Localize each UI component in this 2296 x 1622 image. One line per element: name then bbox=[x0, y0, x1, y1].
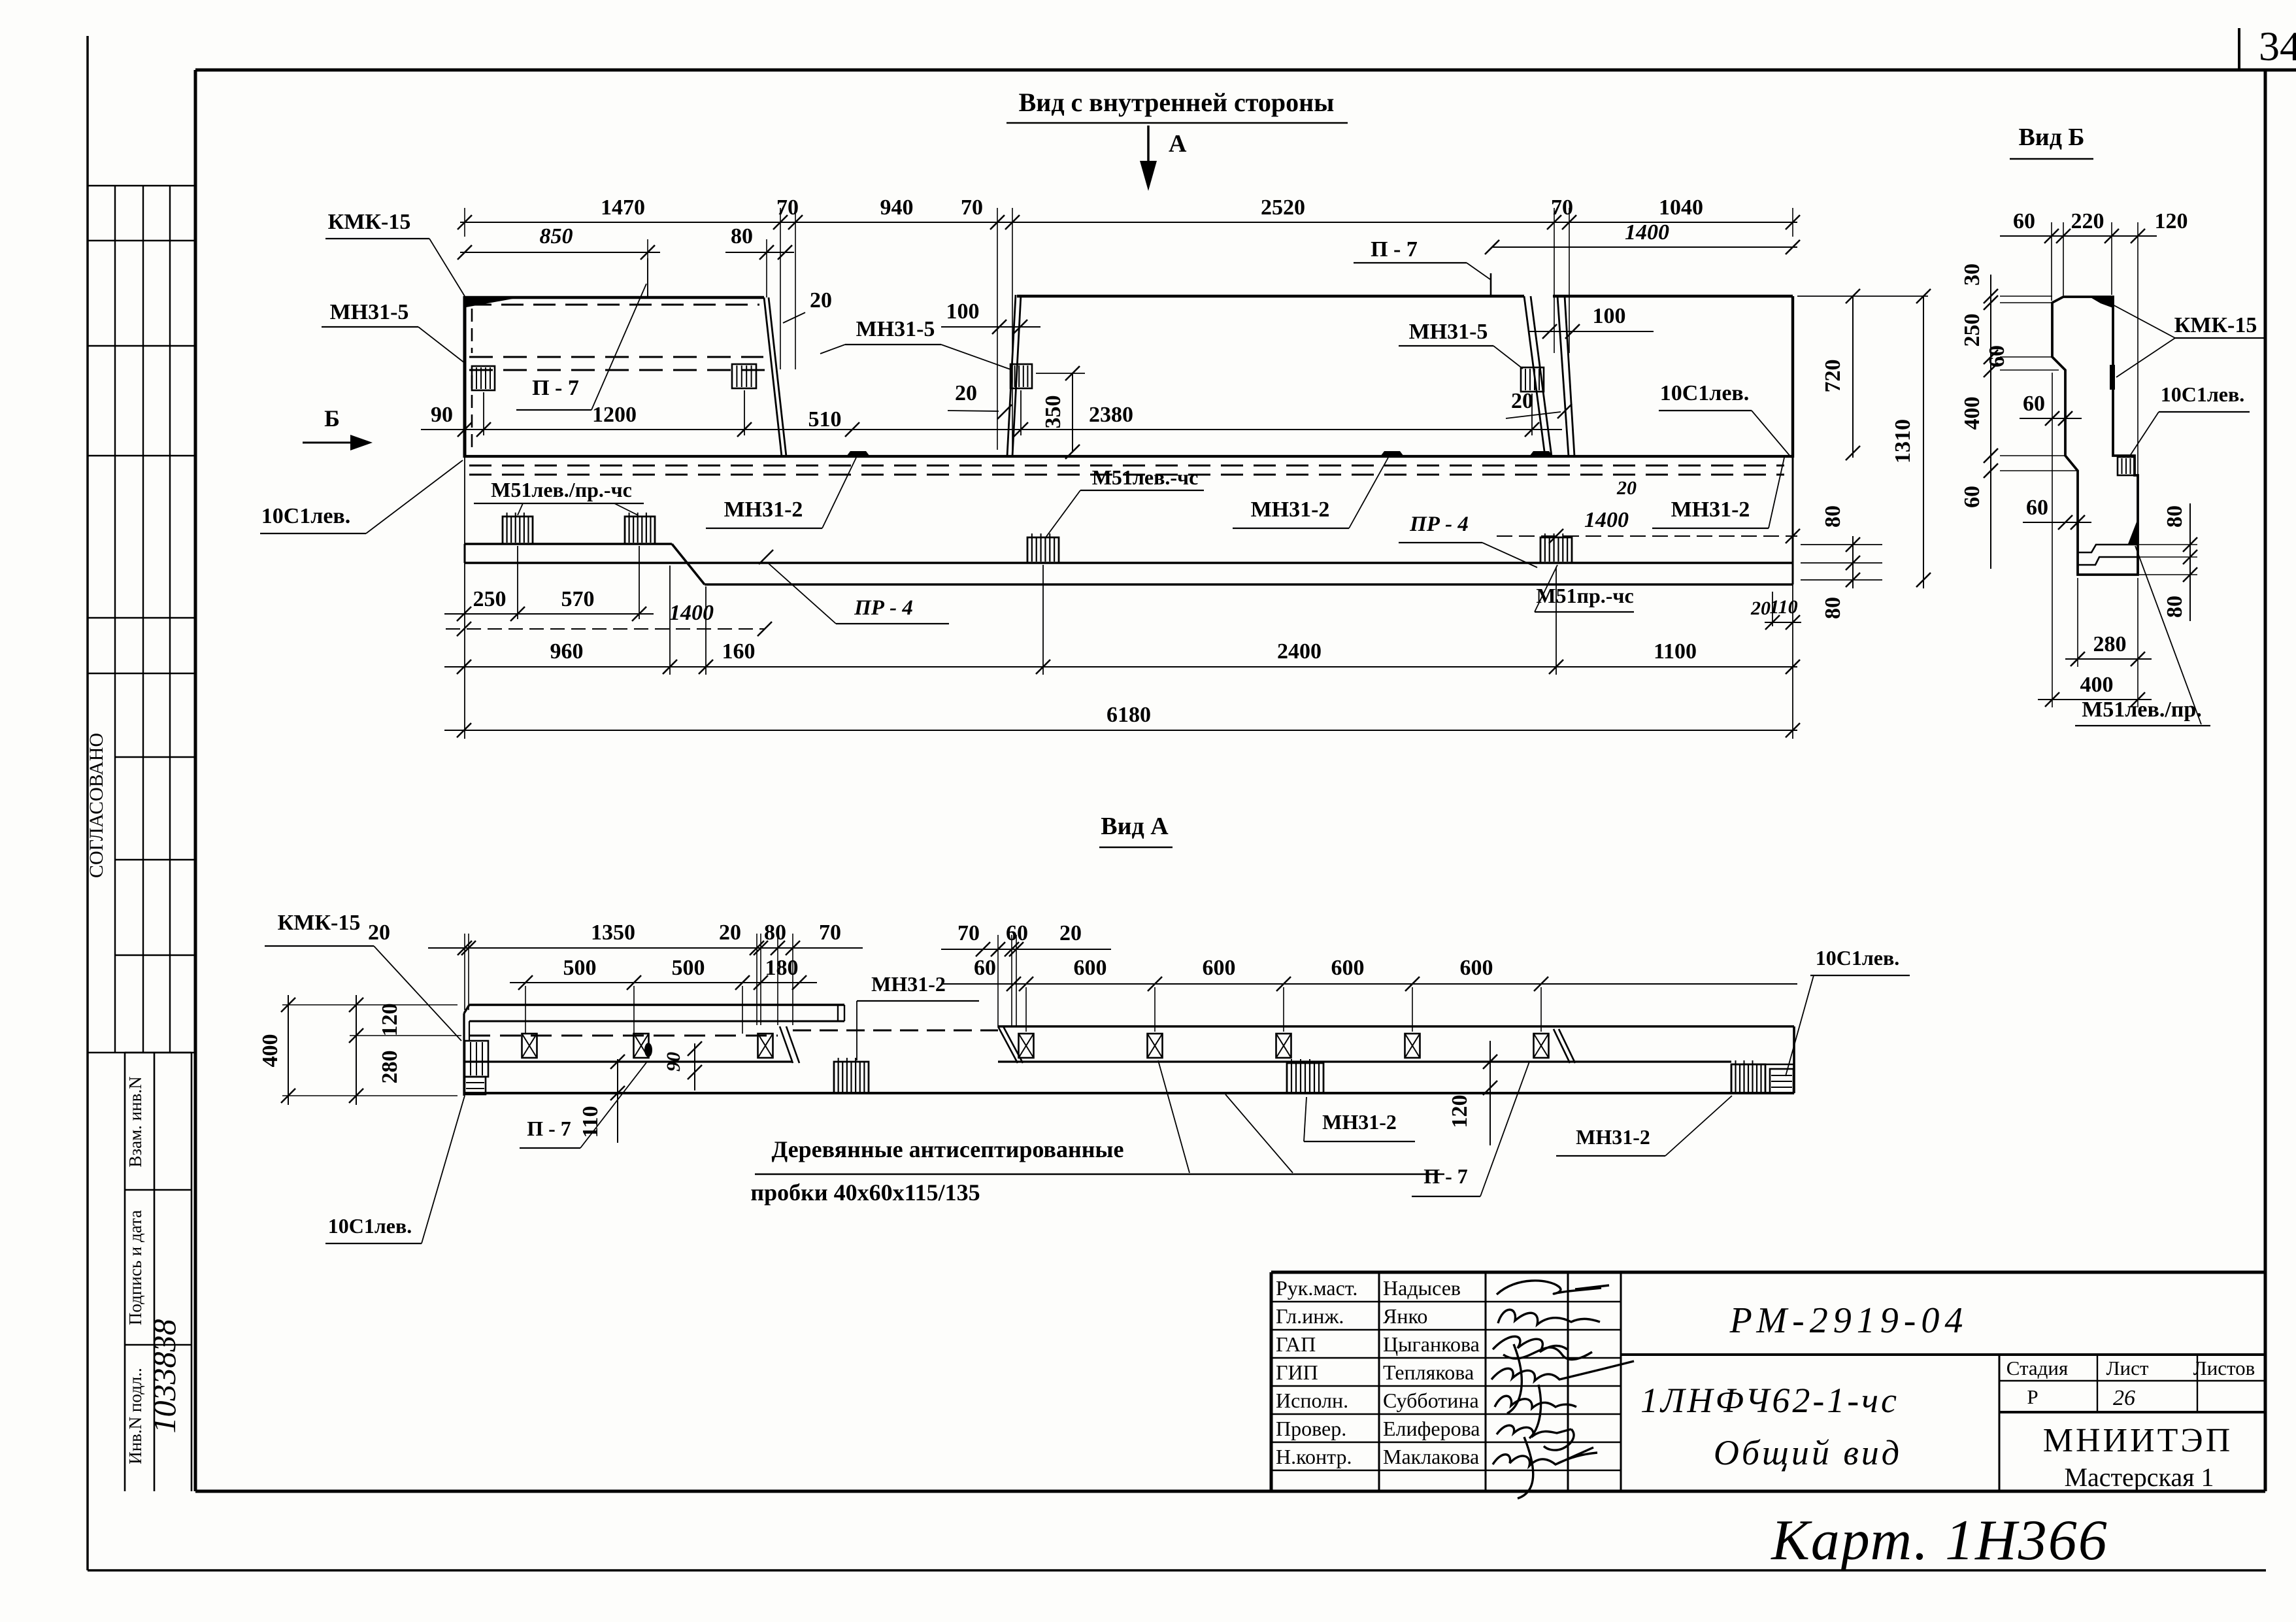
svg-text:пробки 40х60х115/135: пробки 40х60х115/135 bbox=[750, 1179, 980, 1206]
dim text 70 b bbox=[961, 195, 983, 220]
svg-text:350: 350 bbox=[1041, 396, 1065, 429]
dim text 1200 bbox=[592, 403, 637, 427]
label Подпись и дата bbox=[125, 1210, 145, 1325]
label КМК-15 top bbox=[325, 210, 465, 296]
svg-text:М51лев.-чс: М51лев.-чс bbox=[1092, 465, 1199, 489]
svg-text:10С1лев.: 10С1лев. bbox=[1660, 381, 1750, 405]
Вид Б dim 80/80 bbox=[2139, 503, 2197, 621]
svg-text:20: 20 bbox=[955, 381, 977, 405]
header Листов bbox=[2193, 1357, 2255, 1379]
dim 20 at middle block left slant bbox=[948, 381, 1012, 419]
label КМК-15 Вид Б bbox=[2108, 302, 2265, 377]
sheet bottom edge line bbox=[88, 1569, 2266, 1572]
svg-text:20: 20 bbox=[1750, 598, 1771, 619]
svg-text:1040: 1040 bbox=[1659, 195, 1703, 220]
label МН31-2 left bbox=[706, 458, 856, 528]
plug extension lines left block bbox=[484, 390, 744, 435]
svg-text:МН31-5: МН31-5 bbox=[330, 300, 409, 324]
svg-text:70: 70 bbox=[1551, 195, 1573, 220]
hidden dashed line under bottom edge 2 bbox=[469, 474, 1784, 476]
dimension 80 bbox=[725, 224, 794, 297]
svg-text:Вид А: Вид А bbox=[1101, 813, 1169, 840]
svg-text:34: 34 bbox=[2259, 23, 2296, 69]
svg-text:80: 80 bbox=[764, 921, 786, 945]
hidden dashed line under bottom edge 1 bbox=[469, 465, 1784, 467]
Вид Б dim 400 bottom bbox=[2038, 673, 2152, 707]
dim text 510 bbox=[808, 407, 842, 431]
svg-text:КМК-15: КМК-15 bbox=[278, 911, 361, 935]
svg-text:100: 100 bbox=[946, 299, 980, 324]
svg-text:850: 850 bbox=[540, 224, 573, 248]
svg-text:Провер.: Провер. bbox=[1276, 1417, 1346, 1440]
svg-text:400: 400 bbox=[2080, 673, 2114, 697]
Вид А М51 plug 1 bbox=[834, 1058, 869, 1093]
svg-text:90: 90 bbox=[431, 403, 453, 427]
svg-text:1ЛНФЧ62-1-чс: 1ЛНФЧ62-1-чс bbox=[1640, 1381, 1899, 1420]
svg-text:Р: Р bbox=[2027, 1385, 2038, 1408]
title block grid bbox=[1271, 1272, 2265, 1491]
dim text 1470 bbox=[601, 195, 645, 220]
svg-text:Рук.маст.: Рук.маст. bbox=[1276, 1276, 1357, 1300]
svg-text:10С1лев.: 10С1лев. bbox=[2161, 382, 2245, 406]
label 10С1лев Вид А right bbox=[1786, 946, 1910, 1076]
Вид Б dim 60 stem top bbox=[2020, 392, 2082, 426]
handwritten inventory number 1033838 bbox=[146, 1319, 182, 1434]
svg-text:Янко: Янко bbox=[1383, 1304, 1427, 1328]
svg-text:МН31-2: МН31-2 bbox=[1671, 498, 1750, 522]
dimension 100 right bbox=[1529, 304, 1654, 339]
page number tick bbox=[2238, 28, 2240, 70]
sheet left edge line bbox=[86, 36, 89, 1570]
Вид А dim row 20/1350/20/80/70 bbox=[368, 921, 863, 1025]
svg-text:280: 280 bbox=[378, 1051, 402, 1084]
Вид А right end corrugated plug bbox=[1731, 1060, 1765, 1093]
label МН31-5 mid bbox=[820, 317, 1010, 369]
dimension row 90/1200/510/2380 bbox=[421, 422, 1562, 437]
label ПР-4 right bbox=[1399, 513, 1537, 567]
svg-text:1033838: 1033838 bbox=[146, 1319, 182, 1434]
Вид А dim row 60/600x4 bbox=[941, 935, 1797, 1032]
Вид А X-box left piece 1 bbox=[522, 1034, 537, 1058]
svg-text:Стадия: Стадия bbox=[2006, 1357, 2069, 1379]
step extension lines bbox=[670, 566, 706, 675]
label МН31-2 Вид А plug2 bbox=[1304, 1097, 1415, 1141]
Вид Б dim 280 bbox=[2065, 632, 2152, 666]
svg-text:80: 80 bbox=[2163, 596, 2187, 618]
М51 plug band 3 bbox=[1027, 533, 1059, 563]
svg-text:Инв.N подл..: Инв.N подл.. bbox=[125, 1368, 145, 1464]
svg-text:90: 90 bbox=[663, 1052, 684, 1072]
svg-text:Теплякова: Теплякова bbox=[1383, 1360, 1474, 1384]
label МН31-2 Вид А plug1 bbox=[857, 972, 979, 1060]
section arrow А bbox=[1140, 126, 1187, 191]
svg-text:КМК-15: КМК-15 bbox=[328, 210, 411, 234]
text СОГЛАСОВАНО bbox=[86, 733, 107, 878]
header Лист bbox=[2106, 1357, 2149, 1379]
dimension 20/110 bbox=[1750, 592, 1801, 630]
svg-text:Б: Б bbox=[324, 405, 340, 431]
svg-text:110: 110 bbox=[1769, 596, 1797, 618]
svg-text:60: 60 bbox=[1960, 486, 1984, 508]
label П-7 Вид А bbox=[520, 1062, 647, 1148]
plug extension lines middle block bbox=[1021, 390, 1532, 435]
label МН31-2 right bbox=[1652, 458, 1784, 528]
svg-text:Карт. 1Н366: Карт. 1Н366 bbox=[1770, 1509, 2108, 1572]
right edge extension vertical bbox=[1792, 584, 1793, 739]
svg-text:МН31-5: МН31-5 bbox=[1409, 320, 1488, 344]
svg-text:2520: 2520 bbox=[1261, 195, 1305, 220]
svg-text:Взам. инв.N: Взам. инв.N bbox=[125, 1076, 145, 1167]
left block outline bbox=[463, 296, 786, 458]
МН31-2 anchor notch 3 bbox=[1529, 451, 1553, 456]
svg-text:Вид с внутренней стороны: Вид с внутренней стороны bbox=[1019, 88, 1335, 117]
svg-text:Цыганкова: Цыганкова bbox=[1383, 1332, 1480, 1356]
svg-text:1350: 1350 bbox=[591, 921, 635, 945]
svg-text:Общий вид: Общий вид bbox=[1714, 1433, 1902, 1472]
Вид А X-box right piece 2 bbox=[1148, 1034, 1163, 1058]
Вид А X-box right piece 5 bbox=[1534, 1034, 1549, 1058]
svg-text:280: 280 bbox=[2093, 632, 2127, 656]
ext lines plugs band bbox=[518, 546, 639, 619]
Вид Б dim row 60/220/120 bbox=[2000, 209, 2188, 521]
svg-text:120: 120 bbox=[2155, 209, 2188, 233]
handwritten Карт. 1Н366 bbox=[1770, 1509, 2108, 1572]
svg-text:1200: 1200 bbox=[592, 403, 637, 427]
svg-text:20: 20 bbox=[1616, 477, 1637, 499]
Вид А X-box right piece 3 bbox=[1276, 1034, 1291, 1058]
svg-text:110: 110 bbox=[578, 1106, 603, 1138]
dim 20 at left block slant bbox=[783, 288, 832, 323]
svg-text:10С1лев.: 10С1лев. bbox=[328, 1214, 412, 1238]
svg-text:ПР - 4: ПР - 4 bbox=[1409, 513, 1469, 536]
middle block outline bbox=[1007, 295, 1552, 456]
label 10С1лев Вид Б bbox=[2129, 382, 2250, 458]
dimension 1400/20 band right bbox=[1497, 477, 1800, 543]
view title Вид А bbox=[1099, 813, 1173, 847]
svg-text:26: 26 bbox=[2113, 1386, 2135, 1410]
stage Р bbox=[2027, 1385, 2038, 1408]
dim text 90 bbox=[431, 403, 453, 427]
label КМК-15 Вид А bbox=[265, 911, 461, 1041]
svg-text:1400: 1400 bbox=[1625, 220, 1669, 245]
label ПР-4 mid bbox=[759, 550, 949, 624]
dimension 720 bbox=[1797, 289, 1928, 460]
svg-text:20: 20 bbox=[719, 921, 741, 945]
dimension 6180 bbox=[444, 703, 1800, 737]
svg-text:Деревянные антисептированные: Деревянные антисептированные bbox=[771, 1136, 1123, 1162]
label 10С1лев Вид А left bbox=[325, 1096, 465, 1243]
svg-text:Н.контр.: Н.контр. bbox=[1276, 1445, 1352, 1468]
dim 20 at right block slant bbox=[1506, 389, 1572, 418]
svg-text:500: 500 bbox=[672, 956, 705, 980]
Вид Б left dim stack bbox=[1960, 263, 2078, 569]
svg-text:МН31-2: МН31-2 bbox=[1251, 498, 1330, 522]
svg-text:70: 70 bbox=[819, 921, 841, 945]
svg-text:МН31-2: МН31-2 bbox=[871, 972, 946, 996]
svg-text:Вид Б: Вид Б bbox=[2018, 124, 2084, 151]
svg-text:Гл.инж.: Гл.инж. bbox=[1276, 1304, 1344, 1328]
Вид А black dot bbox=[644, 1043, 652, 1057]
Вид А dim 110 bbox=[578, 1055, 625, 1143]
svg-text:МН31-5: МН31-5 bbox=[856, 317, 935, 341]
label М51лев.-чс bbox=[1046, 465, 1204, 537]
Вид А X-box right piece 1 bbox=[1019, 1034, 1034, 1058]
dim text 1040 bbox=[1659, 195, 1703, 220]
svg-text:20: 20 bbox=[810, 288, 832, 313]
svg-text:20: 20 bbox=[1511, 389, 1533, 413]
М51 plug band 4 bbox=[1540, 533, 1572, 563]
МН31-5 plug left-block-left bbox=[472, 366, 495, 390]
left sidebar upper stamp table bbox=[88, 186, 195, 1053]
header Стадия bbox=[2006, 1357, 2069, 1379]
svg-text:120: 120 bbox=[378, 1004, 402, 1037]
svg-text:80: 80 bbox=[1821, 597, 1845, 619]
svg-text:1400: 1400 bbox=[1584, 508, 1629, 532]
МН31-5 plug left-block-right bbox=[732, 364, 756, 388]
ext verticals 2400 row bbox=[1043, 565, 1556, 675]
Вид Б 10С1лев plug bbox=[2118, 457, 2135, 475]
svg-text:70: 70 bbox=[961, 195, 983, 220]
Вид А right end horizontal hatch box bbox=[1770, 1069, 1793, 1093]
label 10С1лев. right bbox=[1659, 381, 1791, 458]
svg-text:120: 120 bbox=[1448, 1095, 1472, 1128]
dim text 940 bbox=[880, 195, 914, 220]
Вид Б profile outline bbox=[2052, 297, 2138, 575]
svg-text:П - 7: П - 7 bbox=[1423, 1164, 1468, 1188]
svg-text:600: 600 bbox=[1074, 956, 1107, 980]
label П-7 in left block bbox=[516, 258, 648, 410]
svg-text:10С1лев.: 10С1лев. bbox=[1816, 946, 1900, 970]
dimension 1400 top right bbox=[1485, 220, 1800, 254]
Вид А М51 plug 2 bbox=[1287, 1059, 1323, 1093]
product code 1ЛНФЧ62-1-чс bbox=[1640, 1381, 1899, 1420]
svg-text:Листов: Листов bbox=[2193, 1357, 2255, 1379]
Вид Б ext verticals bottom bbox=[2052, 373, 2138, 707]
Вид А left end cap box horizontal hatch bbox=[465, 1077, 486, 1094]
svg-text:1470: 1470 bbox=[601, 195, 645, 220]
svg-text:А: А bbox=[1169, 130, 1187, 158]
svg-text:600: 600 bbox=[1460, 956, 1493, 980]
document code РМ-2919-04 bbox=[1729, 1300, 1969, 1341]
wall bottom edge bbox=[465, 455, 1793, 458]
svg-text:П - 7: П - 7 bbox=[532, 376, 579, 400]
Вид А dim row 70/60/20 bbox=[941, 921, 1111, 956]
svg-text:20: 20 bbox=[1059, 921, 1082, 945]
svg-text:Субботина: Субботина bbox=[1383, 1389, 1479, 1412]
sheet number 26 bbox=[2113, 1386, 2135, 1410]
signature scribbles bbox=[1491, 1281, 1634, 1498]
label П-7 Вид А right bbox=[1412, 1062, 1529, 1196]
svg-text:М51лев./пр.-чс: М51лев./пр.-чс bbox=[491, 478, 632, 501]
svg-text:Мастерская 1: Мастерская 1 bbox=[2064, 1462, 2214, 1492]
svg-text:П - 7: П - 7 bbox=[1371, 237, 1418, 262]
Вид А X-box left piece 3 bbox=[758, 1034, 773, 1058]
svg-text:20: 20 bbox=[368, 921, 390, 945]
svg-text:180: 180 bbox=[765, 956, 799, 980]
svg-text:600: 600 bbox=[1203, 956, 1236, 980]
Вид А dim 120 right bbox=[1448, 1041, 1497, 1145]
svg-text:ПР - 4: ПР - 4 bbox=[854, 596, 913, 620]
svg-text:1100: 1100 bbox=[1654, 639, 1697, 664]
Вид А strip outline bbox=[464, 1005, 1794, 1096]
sheet title Общий вид bbox=[1714, 1433, 1902, 1472]
dimension 80/80 right bbox=[1801, 505, 1882, 619]
Вид А X-box left piece 2 bbox=[634, 1034, 649, 1058]
Вид А left end cap box vertical hatch bbox=[465, 1041, 488, 1077]
svg-text:250: 250 bbox=[1960, 314, 1984, 347]
svg-text:М51пр.-чс: М51пр.-чс bbox=[1536, 584, 1633, 607]
workshop Мастерская 1 bbox=[2064, 1462, 2214, 1492]
svg-text:Исполн.: Исполн. bbox=[1276, 1389, 1348, 1412]
svg-text:80: 80 bbox=[2163, 505, 2187, 528]
left edge extension vertical bbox=[464, 458, 465, 739]
svg-text:60: 60 bbox=[2023, 392, 2045, 416]
svg-text:6180: 6180 bbox=[1106, 703, 1151, 727]
Вид А ext lines left bbox=[282, 1005, 461, 1096]
svg-text:960: 960 bbox=[550, 639, 584, 664]
label МН31-5 left bbox=[322, 300, 465, 363]
label Деревянные антисептированные bbox=[750, 1060, 1444, 1206]
svg-text:510: 510 bbox=[808, 407, 842, 431]
dimension 1400 dashed bbox=[446, 601, 772, 636]
dimension 1310 bbox=[1891, 289, 1931, 588]
svg-text:400: 400 bbox=[1960, 397, 1984, 430]
svg-text:400: 400 bbox=[258, 1034, 282, 1068]
МН31-5 plug mid-block-left bbox=[1010, 364, 1032, 388]
right block outline bbox=[1553, 296, 1793, 458]
view title Вид с внутренней стороны bbox=[1007, 88, 1348, 123]
svg-text:МН31-2: МН31-2 bbox=[724, 498, 803, 522]
svg-text:80: 80 bbox=[1821, 505, 1845, 528]
bottom band lines bbox=[465, 458, 1793, 584]
svg-text:600: 600 bbox=[1331, 956, 1365, 980]
Вид Б dim 60 stem bottom bbox=[2023, 496, 2091, 530]
svg-text:ГАП: ГАП bbox=[1276, 1332, 1316, 1356]
svg-text:КМК-15: КМК-15 bbox=[2174, 313, 2257, 337]
svg-text:МНИИТЭП: МНИИТЭП bbox=[2043, 1422, 2233, 1459]
Вид А dim 120/280 bbox=[349, 995, 402, 1105]
svg-text:30: 30 bbox=[1960, 263, 1984, 286]
dimension 850 bbox=[458, 224, 660, 297]
section arrow Б bbox=[303, 405, 373, 450]
svg-text:70: 70 bbox=[776, 195, 799, 220]
dim text 70 a bbox=[776, 195, 799, 220]
Вид А dim 400 bbox=[258, 995, 295, 1105]
М51 plug band 1 bbox=[503, 513, 533, 544]
dimension row 960/160/2400/1100 bbox=[444, 639, 1800, 674]
dim text 70 c bbox=[1551, 195, 1573, 220]
label Взам. инв.N bbox=[125, 1076, 145, 1167]
Вид А dim row 500/500/180 bbox=[510, 956, 817, 1034]
svg-text:РМ-2919-04: РМ-2919-04 bbox=[1729, 1300, 1969, 1341]
svg-text:Лист: Лист bbox=[2106, 1357, 2149, 1379]
dim text 2380 bbox=[1089, 403, 1133, 427]
svg-text:СОГЛАСОВАНО: СОГЛАСОВАНО bbox=[86, 733, 107, 878]
label М51пр.-чс bbox=[1535, 565, 1634, 612]
svg-text:2380: 2380 bbox=[1089, 403, 1133, 427]
dimension 350 vertical bbox=[1036, 366, 1085, 459]
svg-text:60: 60 bbox=[1006, 921, 1028, 945]
dim text 2520 bbox=[1261, 195, 1305, 220]
svg-text:Подпись и дата: Подпись и дата bbox=[125, 1210, 145, 1325]
svg-text:570: 570 bbox=[561, 587, 595, 611]
svg-text:МН31-2: МН31-2 bbox=[1576, 1125, 1650, 1149]
svg-text:220: 220 bbox=[2071, 209, 2105, 233]
label Инв.N подл.. bbox=[125, 1368, 145, 1464]
dimension 100 left bbox=[941, 299, 1040, 334]
svg-text:500: 500 bbox=[563, 956, 597, 980]
svg-text:60: 60 bbox=[974, 956, 996, 980]
organization МНИИТЭП bbox=[2043, 1422, 2233, 1459]
svg-text:1400: 1400 bbox=[669, 601, 714, 625]
МН31-2 anchor notch 1 bbox=[846, 451, 870, 456]
svg-text:720: 720 bbox=[1821, 360, 1845, 393]
svg-text:160: 160 bbox=[722, 639, 756, 664]
Вид А dim 90 bbox=[663, 1041, 702, 1090]
svg-text:60: 60 bbox=[2013, 209, 2035, 233]
svg-text:100: 100 bbox=[1593, 304, 1626, 328]
page number 34 bbox=[2259, 23, 2296, 69]
label МН31-5 right bbox=[1399, 320, 1523, 369]
МН31-2 anchor notch 2 bbox=[1380, 451, 1404, 456]
label М51лев./пр. Вид Б bbox=[2075, 546, 2210, 726]
title block role and name texts bbox=[1276, 1276, 1480, 1468]
svg-text:1310: 1310 bbox=[1891, 419, 1915, 464]
label МН31-2 mid bbox=[1233, 458, 1388, 528]
label МН31-2 Вид А right bbox=[1556, 1096, 1732, 1156]
label 10С1лев. left bbox=[260, 460, 463, 533]
dimension row 1470/70/940/70/2520/70/1040 bbox=[458, 208, 1800, 450]
svg-text:Надысев: Надысев bbox=[1383, 1276, 1461, 1300]
svg-text:Маклакова: Маклакова bbox=[1383, 1445, 1479, 1468]
МН31-5 plug mid-block-right bbox=[1521, 367, 1544, 392]
svg-text:2400: 2400 bbox=[1277, 639, 1322, 664]
svg-text:10С1лев.: 10С1лев. bbox=[261, 504, 351, 528]
svg-text:М51лев./пр.: М51лев./пр. bbox=[2082, 698, 2202, 722]
svg-text:940: 940 bbox=[880, 195, 914, 220]
label П-7 above middle block bbox=[1354, 237, 1491, 296]
dimension 250/570 bbox=[444, 587, 654, 621]
label М51лев./пр.-чс bbox=[474, 478, 644, 515]
svg-text:80: 80 bbox=[731, 224, 753, 248]
svg-text:60: 60 bbox=[1985, 345, 2009, 367]
svg-text:П - 7: П - 7 bbox=[527, 1117, 571, 1140]
svg-text:70: 70 bbox=[957, 921, 980, 945]
М51 plug band 2 bbox=[625, 513, 655, 544]
left sidebar lower table bbox=[125, 1053, 191, 1491]
Вид А X-box right piece 4 bbox=[1405, 1034, 1420, 1058]
svg-text:ГИП: ГИП bbox=[1276, 1360, 1318, 1384]
view title Вид Б bbox=[2010, 124, 2093, 159]
svg-text:250: 250 bbox=[473, 587, 507, 611]
svg-text:Елиферова: Елиферова bbox=[1383, 1417, 1480, 1440]
svg-text:60: 60 bbox=[2026, 496, 2048, 520]
svg-text:МН31-2: МН31-2 bbox=[1322, 1110, 1397, 1134]
